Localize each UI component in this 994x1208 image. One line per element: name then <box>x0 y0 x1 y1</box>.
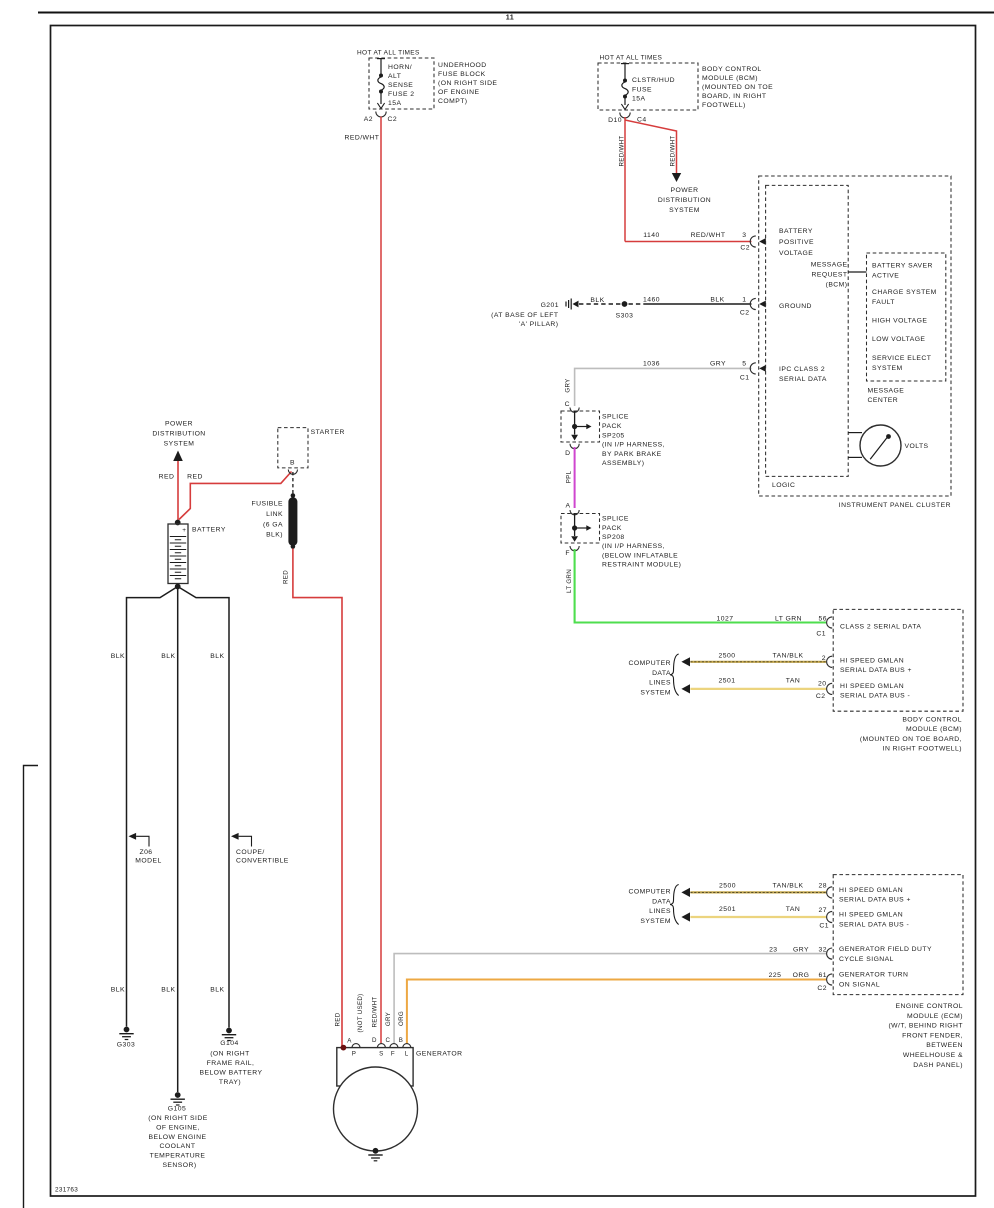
svg-text:RED: RED <box>187 474 203 481</box>
fuse F1 HORN/ALT SENSE FUSE 2 15A <box>377 58 415 109</box>
wire 2501 TAN to BCM <box>690 688 826 690</box>
svg-text:RED: RED <box>283 570 290 584</box>
labels 2501 TAN pin 20 C2 (BCM) <box>719 678 827 701</box>
label IPC CLASS 2 SERIAL DATA <box>779 366 827 383</box>
generator connector B <box>399 1037 411 1048</box>
battery positive junction node <box>175 520 181 526</box>
svg-text:D: D <box>565 450 570 457</box>
svg-text:ACTIVE: ACTIVE <box>872 273 899 280</box>
svg-text:(ON RIGHT SIDE: (ON RIGHT SIDE <box>148 1115 207 1122</box>
labels 1460 BLK pin 1 C2 <box>643 297 749 317</box>
svg-text:1: 1 <box>742 297 746 304</box>
svg-text:28: 28 <box>819 883 827 890</box>
labels RED RED <box>159 474 203 481</box>
generator connector C <box>386 1037 398 1048</box>
svg-text:DISTRIBUTION: DISTRIBUTION <box>152 431 205 438</box>
label VOLTS <box>905 443 929 450</box>
label ENGINE CONTROL MODULE (ECM) location <box>888 1003 963 1069</box>
label GRY rotated (generator) <box>385 1012 392 1026</box>
svg-text:L: L <box>405 1051 409 1058</box>
svg-text:BLK: BLK <box>161 653 175 660</box>
wire 2500 TAN/BLK to BCM <box>690 661 826 663</box>
labels FUSIBLE LINK (6 GA BLK) <box>252 501 283 539</box>
svg-text:CHARGE SYSTEM: CHARGE SYSTEM <box>872 289 937 296</box>
svg-text:C2: C2 <box>817 985 827 992</box>
svg-text:2500: 2500 <box>719 883 736 890</box>
svg-text:(BELOW INFLATABLE: (BELOW INFLATABLE <box>602 553 678 560</box>
brace computer data lines (BCM) <box>670 654 679 696</box>
label HI SPEED GMLAN SERIAL DATA BUS + (ECM) <box>839 887 911 904</box>
svg-text:MESSAGE: MESSAGE <box>868 388 905 395</box>
svg-text:RED/WHT: RED/WHT <box>691 232 726 239</box>
svg-text:SERIAL DATA BUS -: SERIAL DATA BUS - <box>839 921 909 928</box>
svg-text:VOLTS: VOLTS <box>905 443 929 450</box>
wire RED/WHT from D10 down <box>624 117 626 242</box>
svg-text:RED/WHT: RED/WHT <box>372 997 379 1028</box>
instrument panel cluster outer dashed box <box>759 176 951 496</box>
labels BLK (upper row) <box>111 653 225 660</box>
generator case ground <box>368 1148 382 1161</box>
label POWER DISTRIBUTION SYSTEM (left) <box>152 421 205 448</box>
svg-text:GENERATOR: GENERATOR <box>416 1051 462 1058</box>
svg-text:LINK: LINK <box>266 511 283 518</box>
svg-text:SERIAL DATA: SERIAL DATA <box>779 376 827 383</box>
svg-text:OF ENGINE,: OF ENGINE, <box>156 1125 200 1132</box>
svg-text:WHEELHOUSE &: WHEELHOUSE & <box>903 1052 963 1059</box>
svg-text:INSTRUMENT PANEL CLUSTER: INSTRUMENT PANEL CLUSTER <box>839 502 951 509</box>
svg-text:IPC CLASS 2: IPC CLASS 2 <box>779 366 825 373</box>
svg-text:SERIAL DATA BUS +: SERIAL DATA BUS + <box>840 667 912 674</box>
wire 23 GRY generator field duty <box>394 954 826 1044</box>
svg-text:BELOW BATTERY: BELOW BATTERY <box>199 1070 262 1077</box>
label GROUND <box>779 303 812 310</box>
label HOT AT ALL TIMES (underhood fuse block) <box>357 50 420 57</box>
labels 1027 LT GRN pin 56 C1 <box>717 616 827 638</box>
wire RED battery to starter B <box>179 472 292 520</box>
svg-text:SENSOR): SENSOR) <box>162 1162 196 1169</box>
svg-text:PACK: PACK <box>602 525 622 532</box>
ground G201 <box>541 299 579 310</box>
svg-text:BLK: BLK <box>710 297 724 304</box>
svg-text:S: S <box>379 1051 384 1058</box>
svg-text:BLK: BLK <box>111 986 125 993</box>
svg-text:RED/WHT: RED/WHT <box>670 136 677 167</box>
fusible link dashed lead <box>292 472 294 494</box>
label ORG rotated (generator) <box>398 1011 405 1026</box>
svg-text:DASH PANEL): DASH PANEL) <box>913 1062 963 1069</box>
label COMPUTER DATA LINES SYSTEM (BCM) <box>629 660 672 696</box>
svg-text:BY PARK BRAKE: BY PARK BRAKE <box>602 451 662 458</box>
label LOGIC <box>772 482 795 489</box>
svg-text:POWER: POWER <box>671 187 699 194</box>
svg-text:D: D <box>372 1037 377 1044</box>
svg-text:BATTERY: BATTERY <box>779 228 813 235</box>
svg-text:GENERATOR TURN: GENERATOR TURN <box>839 972 908 979</box>
connector pin C at SP205 <box>565 401 580 412</box>
svg-text:32: 32 <box>819 946 827 953</box>
svg-text:F: F <box>391 1051 395 1058</box>
svg-text:BATTERY: BATTERY <box>192 527 226 534</box>
svg-text:C1: C1 <box>740 375 750 382</box>
svg-text:CLSTR/HUD: CLSTR/HUD <box>632 77 675 84</box>
svg-text:C: C <box>386 1037 391 1044</box>
svg-text:MODULE (BCM): MODULE (BCM) <box>906 726 962 733</box>
connector at IPC class 2 serial data <box>750 363 766 374</box>
label INSTRUMENT PANEL CLUSTER <box>839 502 951 509</box>
svg-text:BLK: BLK <box>210 653 224 660</box>
svg-text:BETWEEN: BETWEEN <box>926 1042 963 1049</box>
svg-text:231763: 231763 <box>55 1187 78 1194</box>
svg-text:(MOUNTED ON TOE BOARD,: (MOUNTED ON TOE BOARD, <box>860 736 962 743</box>
svg-text:A: A <box>347 1038 352 1045</box>
generator connector D <box>372 1037 385 1048</box>
svg-text:COOLANT: COOLANT <box>159 1143 195 1150</box>
wire BLK battery negative to G104 <box>178 587 229 1028</box>
svg-text:P: P <box>352 1051 357 1058</box>
svg-text:SERIAL DATA BUS -: SERIAL DATA BUS - <box>840 693 910 700</box>
svg-text:Z06: Z06 <box>139 849 152 856</box>
label (NOT USED) rotated <box>357 994 364 1033</box>
svg-text:HORN/: HORN/ <box>388 64 412 71</box>
wire 225 ORG generator turn on <box>407 980 826 1044</box>
label BATTERY <box>192 527 226 534</box>
svg-text:BLK: BLK <box>210 986 224 993</box>
labels 1036 GRY pin 5 C1 <box>643 361 749 382</box>
svg-text:RESTRAINT MODULE): RESTRAINT MODULE) <box>602 562 681 569</box>
svg-text:REQUEST: REQUEST <box>811 272 847 279</box>
svg-text:C2: C2 <box>740 245 750 252</box>
svg-text:MODULE (BCM): MODULE (BCM) <box>702 75 758 82</box>
label BODY CONTROL MODULE (BCM) location <box>702 66 773 109</box>
svg-text:CLASS 2 SERIAL DATA: CLASS 2 SERIAL DATA <box>840 624 921 631</box>
tag Z06 MODEL <box>129 833 162 865</box>
wire RED/WHT branch to power distribution <box>625 120 677 174</box>
arrow computer data lines row 2 (BCM) <box>681 684 690 693</box>
label GENERATOR TURN ON SIGNAL <box>839 972 908 989</box>
arrow up to power distribution system <box>173 451 183 462</box>
engine control module dashed box <box>833 875 963 995</box>
pin A of SP208 <box>566 503 580 515</box>
wire 1460 BLK to IPC ground <box>629 303 752 305</box>
figure number 231763 <box>55 1187 78 1194</box>
svg-text:BELOW ENGINE: BELOW ENGINE <box>149 1134 207 1141</box>
label GENERATOR <box>416 1051 462 1058</box>
svg-text:MODEL: MODEL <box>135 858 161 865</box>
svg-text:SP205: SP205 <box>602 433 625 440</box>
svg-text:G303: G303 <box>117 1042 135 1049</box>
svg-text:D10: D10 <box>608 117 622 124</box>
ground G105 <box>148 1092 207 1169</box>
svg-text:225: 225 <box>769 972 782 979</box>
svg-text:27: 27 <box>819 907 827 914</box>
svg-text:POSITIVE: POSITIVE <box>779 239 814 246</box>
svg-text:TAN/BLK: TAN/BLK <box>773 653 804 660</box>
pin F of SP208 <box>565 550 570 557</box>
tag COUPE/CONVERTIBLE <box>231 833 289 865</box>
fusible link (6 GA BLK) <box>288 493 297 549</box>
svg-text:1027: 1027 <box>717 616 734 623</box>
connector at ECM GMLAN - <box>827 911 833 922</box>
label CLASS 2 SERIAL DATA <box>840 624 921 631</box>
svg-text:SYSTEM: SYSTEM <box>164 441 195 448</box>
svg-text:(BCM): (BCM) <box>826 282 848 289</box>
pin B of starter <box>288 460 297 475</box>
svg-text:C2: C2 <box>816 693 826 700</box>
svg-text:HI SPEED GMLAN: HI SPEED GMLAN <box>839 887 903 894</box>
labels BLK (lower row) <box>111 986 225 993</box>
svg-text:(6 GA: (6 GA <box>263 522 283 529</box>
svg-text:G105: G105 <box>168 1106 186 1113</box>
svg-text:F: F <box>565 550 570 557</box>
svg-text:HOT AT ALL TIMES: HOT AT ALL TIMES <box>600 55 663 62</box>
svg-text:LINES: LINES <box>649 908 671 915</box>
svg-text:(AT BASE OF LEFT: (AT BASE OF LEFT <box>491 312 558 319</box>
svg-text:15A: 15A <box>388 100 401 107</box>
svg-text:BLK: BLK <box>590 297 604 304</box>
svg-text:PACK: PACK <box>602 423 622 430</box>
ground G303 <box>117 1027 135 1049</box>
underhood fuse block dashed box <box>369 58 434 109</box>
battery negative junction node <box>175 584 181 590</box>
svg-text:DATA: DATA <box>652 898 671 905</box>
svg-text:GRY: GRY <box>385 1012 392 1026</box>
wire BLK battery negative to G105 <box>177 587 179 1093</box>
wire LT GRN from SP208 to BCM class 2 serial data <box>575 549 826 623</box>
label HOT AT ALL TIMES (BCM fuse) <box>600 55 663 62</box>
svg-text:G201: G201 <box>541 302 559 309</box>
wire RED battery positive up <box>177 461 179 521</box>
svg-text:GENERATOR FIELD DUTY: GENERATOR FIELD DUTY <box>839 946 932 953</box>
svg-text:COUPE/: COUPE/ <box>236 849 265 856</box>
svg-text:PPL: PPL <box>566 470 573 483</box>
svg-text:SPLICE: SPLICE <box>602 414 629 421</box>
connector A2 / C2 <box>364 112 397 124</box>
label RED/WHT rotated (generator) <box>372 997 379 1028</box>
arrow computer data lines row 2 (ECM) <box>681 912 690 921</box>
labels 2500 TAN/BLK pin 28 (ECM) <box>719 883 827 890</box>
svg-text:2501: 2501 <box>719 906 736 913</box>
svg-text:LOW VOLTAGE: LOW VOLTAGE <box>872 336 925 343</box>
label HI SPEED GMLAN SERIAL DATA BUS + (BCM) <box>840 658 912 675</box>
top rule line <box>38 12 994 14</box>
label RED/WHT rotated (left branch) <box>619 136 626 167</box>
connector at ECM generator field duty <box>827 948 833 959</box>
svg-text:BOARD, IN RIGHT: BOARD, IN RIGHT <box>702 93 767 100</box>
labels SPLICE PACK SP205 location <box>602 414 665 468</box>
wire 2500 TAN/BLK to ECM <box>690 891 826 893</box>
svg-text:'A' PILLAR): 'A' PILLAR) <box>519 321 559 328</box>
label LT GRN rotated <box>566 569 573 593</box>
wire 2501 TAN to ECM <box>690 916 826 918</box>
left margin L-mark <box>24 766 39 1208</box>
generator terminal labels P S F L <box>352 1051 409 1058</box>
svg-text:ALT: ALT <box>388 73 401 80</box>
svg-text:BATTERY SAVER: BATTERY SAVER <box>872 263 933 270</box>
svg-text:2501: 2501 <box>719 678 736 685</box>
svg-text:S303: S303 <box>616 313 634 320</box>
svg-text:23: 23 <box>769 946 777 953</box>
svg-text:2500: 2500 <box>719 653 736 660</box>
svg-text:HOT AT ALL TIMES: HOT AT ALL TIMES <box>357 50 420 57</box>
splice S303 <box>616 301 634 319</box>
svg-text:(W/T, BEHIND RIGHT: (W/T, BEHIND RIGHT <box>888 1023 963 1030</box>
svg-text:DISTRIBUTION: DISTRIBUTION <box>658 197 711 204</box>
svg-text:HIGH VOLTAGE: HIGH VOLTAGE <box>872 318 927 325</box>
connector at BCM GMLAN + <box>827 656 833 667</box>
message center dashed box <box>867 253 946 381</box>
svg-text:RED/WHT: RED/WHT <box>345 135 380 142</box>
svg-text:C1: C1 <box>816 631 826 638</box>
svg-text:TAN: TAN <box>786 906 800 913</box>
label (AT BASE OF LEFT A PILLAR) <box>491 312 558 328</box>
wire RED fusible link to generator P <box>293 549 342 1048</box>
svg-text:1460: 1460 <box>643 297 660 304</box>
label MESSAGE REQUEST (BCM) <box>811 262 848 289</box>
svg-text:POWER: POWER <box>165 421 193 428</box>
battery BT1 <box>168 524 188 584</box>
svg-text:(MOUNTED ON TOE: (MOUNTED ON TOE <box>702 84 773 91</box>
svg-text:FUSE BLOCK: FUSE BLOCK <box>438 71 486 78</box>
generator terminal P junction node <box>341 1045 347 1051</box>
wire RED/WHT vertical from A2 fuse to generator S <box>380 117 382 1044</box>
svg-text:STARTER: STARTER <box>311 429 345 436</box>
body control module dashed box <box>833 609 963 711</box>
svg-text:COMPUTER: COMPUTER <box>629 889 672 896</box>
svg-text:SENSE: SENSE <box>388 82 413 89</box>
svg-text:LOGIC: LOGIC <box>772 482 795 489</box>
svg-text:FUSE: FUSE <box>632 87 652 94</box>
wire 1140 RED/WHT to IPC battery positive <box>625 241 752 243</box>
svg-text:MESSAGE: MESSAGE <box>811 262 848 269</box>
connector at BCM GMLAN - <box>827 683 833 694</box>
svg-text:BLK: BLK <box>161 986 175 993</box>
svg-text:RED: RED <box>335 1012 342 1026</box>
starter dashed box <box>278 428 308 468</box>
svg-text:CONVERTIBLE: CONVERTIBLE <box>236 858 289 865</box>
svg-text:HI SPEED GMLAN: HI SPEED GMLAN <box>840 683 904 690</box>
arrow computer data lines row 1 (ECM) <box>681 888 690 897</box>
wire 1036 GRY from splice pack to IPC serial data <box>575 368 752 406</box>
svg-text:GROUND: GROUND <box>779 303 812 310</box>
svg-text:BODY CONTROL: BODY CONTROL <box>702 66 762 73</box>
label BATTERY POSITIVE VOLTAGE <box>779 228 814 257</box>
svg-text:SYSTEM: SYSTEM <box>640 689 671 696</box>
svg-text:GRY: GRY <box>710 361 726 368</box>
svg-text:20: 20 <box>818 681 826 688</box>
svg-text:ASSEMBLY): ASSEMBLY) <box>602 460 644 467</box>
svg-text:COMPT): COMPT) <box>438 98 468 105</box>
pin D of SP205 <box>565 450 570 457</box>
svg-text:TEMPERATURE: TEMPERATURE <box>150 1153 206 1160</box>
svg-text:GRY: GRY <box>793 946 809 953</box>
svg-text:56: 56 <box>819 616 827 623</box>
label HI SPEED GMLAN SERIAL DATA BUS - (BCM) <box>840 683 910 700</box>
connector at IPC battery positive <box>750 236 766 247</box>
svg-text:SYSTEM: SYSTEM <box>872 365 903 372</box>
svg-text:LT GRN: LT GRN <box>566 569 573 593</box>
svg-text:3: 3 <box>742 232 746 239</box>
label POWER DISTRIBUTION SYSTEM (top) <box>658 187 711 214</box>
svg-text:A: A <box>566 503 571 510</box>
svg-text:BLK): BLK) <box>266 532 283 539</box>
svg-text:LT GRN: LT GRN <box>775 616 802 623</box>
svg-text:A2: A2 <box>364 116 373 123</box>
wire BLK battery negative to G303 <box>127 587 178 1027</box>
labels 1140 RED/WHT pin 3 C2 <box>643 232 750 252</box>
splice pack SP205 <box>561 411 600 449</box>
svg-text:1036: 1036 <box>643 361 660 368</box>
svg-text:IN RIGHT FOOTWELL): IN RIGHT FOOTWELL) <box>883 746 962 753</box>
svg-text:61: 61 <box>819 972 827 979</box>
svg-text:ORG: ORG <box>793 972 810 979</box>
LOGIC dashed box <box>766 185 849 476</box>
svg-text:(IN I/P HARNESS,: (IN I/P HARNESS, <box>602 543 665 550</box>
svg-text:(ON RIGHT SIDE: (ON RIGHT SIDE <box>438 80 497 87</box>
svg-text:OF ENGINE: OF ENGINE <box>438 89 479 96</box>
svg-text:SP208: SP208 <box>602 534 625 541</box>
svg-text:B: B <box>399 1037 404 1044</box>
svg-text:UNDERHOOD: UNDERHOOD <box>438 62 487 69</box>
svg-text:B: B <box>290 460 295 467</box>
svg-text:FAULT: FAULT <box>872 299 895 306</box>
svg-text:(NOT USED): (NOT USED) <box>357 994 364 1033</box>
svg-text:LINES: LINES <box>649 680 671 687</box>
svg-text:11: 11 <box>506 13 515 22</box>
svg-text:SERIAL DATA BUS +: SERIAL DATA BUS + <box>839 897 911 904</box>
svg-text:RED: RED <box>159 474 175 481</box>
wire BLK dashed from G201 to splice S303 <box>579 297 621 304</box>
labels 225 ORG pin 61 C2 <box>769 972 827 992</box>
BCM fuse dashed box <box>598 63 698 110</box>
label COMPUTER DATA LINES SYSTEM (ECM) <box>629 889 672 925</box>
label GENERATOR FIELD DUTY CYCLE SIGNAL <box>839 946 932 963</box>
svg-text:2: 2 <box>822 655 826 662</box>
wire PPL from SP205 D to SP208 A <box>574 447 576 508</box>
labels 2500 TAN/BLK pin 2 (BCM) <box>719 653 826 663</box>
connector D10 / C4 <box>608 113 646 125</box>
svg-text:15A: 15A <box>632 96 645 103</box>
svg-text:ORG: ORG <box>398 1011 405 1026</box>
labels 2501 TAN pin 27 C1 (ECM) <box>719 906 829 930</box>
svg-text:GRY: GRY <box>565 378 572 392</box>
connector at ECM GMLAN + <box>827 887 833 898</box>
svg-text:5: 5 <box>742 361 746 368</box>
svg-text:FUSE 2: FUSE 2 <box>388 91 415 98</box>
svg-text:SERVICE ELECT: SERVICE ELECT <box>872 355 931 362</box>
splice pack SP208 <box>561 514 600 551</box>
label MESSAGE CENTER <box>868 388 905 405</box>
label BODY CONTROL MODULE (BCM) location (bottom) <box>860 717 962 753</box>
label RED rotated (generator P lead) <box>335 1012 342 1026</box>
svg-text:DATA: DATA <box>652 670 671 677</box>
svg-text:ENGINE CONTROL: ENGINE CONTROL <box>896 1003 963 1010</box>
svg-text:TAN: TAN <box>786 678 800 685</box>
label RED/WHT rotated (right branch) <box>670 136 677 167</box>
svg-text:RED/WHT: RED/WHT <box>619 136 626 167</box>
svg-text:C1: C1 <box>819 923 829 930</box>
arrow to power distribution system <box>672 173 681 182</box>
label RED rotated (fusible link) <box>283 570 290 584</box>
svg-text:SYSTEM: SYSTEM <box>640 918 671 925</box>
svg-text:TAN/BLK: TAN/BLK <box>773 883 804 890</box>
ground G104 <box>199 1028 262 1086</box>
connector at ECM generator turn on <box>827 974 833 985</box>
arrow computer data lines row 1 (BCM) <box>681 657 690 666</box>
svg-text:C: C <box>565 401 570 408</box>
svg-text:VOLTAGE: VOLTAGE <box>779 250 813 257</box>
generator connector A (not used) <box>347 1038 360 1048</box>
svg-text:FOOTWELL): FOOTWELL) <box>702 102 746 109</box>
